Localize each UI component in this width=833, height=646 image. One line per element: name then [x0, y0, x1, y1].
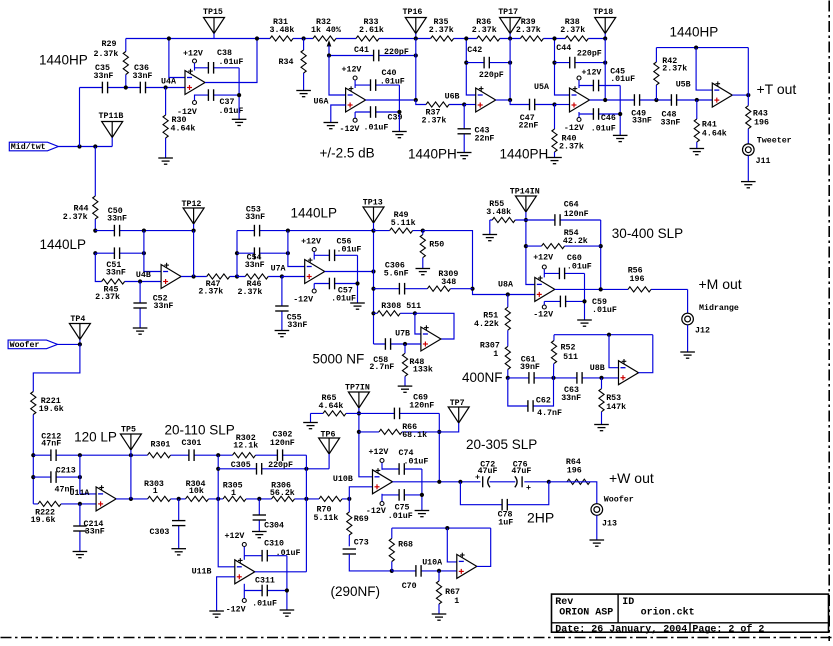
svg-text:.01uF: .01uF [364, 124, 389, 133]
svg-text:10k: 10k [189, 486, 204, 496]
junction R303/C303 [177, 497, 181, 501]
wire to U4B inverting [144, 231, 161, 272]
power -12V U6A [353, 118, 357, 122]
junction R308/U7B [413, 311, 417, 315]
wire to C35 [79, 88, 81, 147]
junction C50 left [93, 229, 97, 233]
junction C42 right [508, 61, 512, 65]
wire to U8A + [423, 231, 535, 295]
ground C43 [457, 152, 472, 154]
resistor R53 [598, 389, 605, 412]
wire TP13 stem [373, 223, 375, 231]
svg-text:+T out: +T out [757, 81, 797, 97]
svg-text:ORION ASP: ORION ASP [559, 608, 613, 619]
capacitor C48 [671, 94, 677, 106]
wire C46 row [579, 113, 620, 115]
wire C47 row [510, 100, 554, 105]
op-amp U8B [619, 361, 639, 385]
svg-text:TP12: TP12 [182, 200, 202, 209]
junction C212 right [78, 453, 82, 457]
svg-text:-12V: -12V [564, 124, 584, 133]
wire V+ stub U4A [194, 63, 196, 70]
svg-text:1: 1 [231, 489, 236, 498]
wire C40 row [355, 84, 399, 86]
svg-text:C305: C305 [231, 461, 251, 470]
svg-text:2.37k: 2.37k [198, 287, 223, 297]
svg-text:U7A: U7A [271, 265, 286, 274]
op-amp U7A [305, 260, 325, 284]
svg-text:39nF: 39nF [520, 363, 540, 372]
svg-text:4.64k: 4.64k [702, 129, 727, 139]
ground R50 [416, 268, 431, 270]
resistor R32 [313, 35, 336, 42]
junction C59/C60 [582, 299, 586, 303]
junction C49/R42 [654, 98, 658, 102]
op-amp U6A [346, 88, 366, 112]
junction R308 row [371, 311, 375, 315]
junction TP5/feedback [129, 453, 133, 457]
junction U6B out [508, 98, 512, 102]
capacitor C306 [399, 283, 405, 295]
svg-text:4.7nF: 4.7nF [537, 409, 562, 418]
junction loop/U8B- [607, 333, 611, 337]
test point TP15 [204, 18, 225, 34]
wire R54 row [526, 245, 601, 247]
ground J12 [680, 351, 695, 353]
junction C61/C63/R52/C62 [551, 376, 555, 380]
svg-text:TP7IN: TP7IN [345, 384, 370, 393]
svg-text:2.61k: 2.61k [359, 25, 384, 35]
wire TP18 vertical [604, 39, 606, 101]
wire C74 row [382, 468, 422, 470]
junction R31/R32/R34 [302, 36, 306, 40]
wire C302 node vertical to U11B- [218, 455, 235, 567]
svg-text:orion.ckt: orion.ckt [641, 607, 695, 619]
svg-text:22nF: 22nF [475, 135, 495, 144]
resistor R39 [520, 35, 543, 42]
wire C57 row [314, 283, 357, 285]
junction 400NF input [506, 376, 510, 380]
svg-text:-12V: -12V [533, 311, 553, 320]
wire C44 left vertical [555, 39, 570, 96]
junction R29/C35/C36 [124, 85, 128, 89]
junction R54 left [524, 244, 528, 248]
wire R67 branch [438, 571, 440, 614]
svg-text:R53: R53 [606, 394, 621, 403]
resistor R33 [356, 35, 379, 42]
svg-text:4.64k: 4.64k [171, 124, 196, 134]
svg-text:220pF: 220pF [268, 461, 293, 470]
ground R30 [158, 157, 173, 159]
junction rail [552, 36, 556, 40]
junction C305 right [304, 467, 308, 471]
wire C59 row [544, 300, 584, 302]
wire 400NF row [508, 377, 619, 379]
junction feedback [437, 480, 441, 484]
wire V- stub U5A [578, 112, 580, 117]
svg-text:Mid/twt: Mid/twt [11, 142, 46, 152]
wire R66 row [359, 431, 439, 433]
svg-text:33nF: 33nF [106, 268, 126, 277]
svg-text:C311: C311 [255, 577, 275, 586]
capacitor C69 [394, 407, 400, 419]
junction wiper/C41 [327, 53, 331, 57]
svg-text:220pF: 220pF [384, 48, 409, 57]
capacitor C75 [399, 489, 405, 501]
capacitor C35 [102, 81, 108, 93]
wire C51 row [95, 252, 144, 254]
wire R69 branch [348, 499, 350, 546]
wire R52 branch [553, 335, 556, 378]
svg-text:J12: J12 [695, 327, 710, 336]
svg-text:+12V: +12V [369, 448, 389, 457]
test point TP17 [500, 18, 521, 34]
wire R221 input chain [33, 344, 80, 504]
wire U8A output row [555, 288, 688, 290]
wire U11B + to ground [217, 577, 235, 611]
junction R68/C70 [390, 569, 394, 573]
svg-text:196: 196 [630, 275, 645, 284]
svg-text:.01uF: .01uF [380, 78, 405, 87]
ground U6A + [324, 122, 339, 124]
svg-text:2.37k: 2.37k [662, 64, 687, 74]
resistor R307 [504, 346, 511, 369]
junction C47/R40/U5A+ [552, 102, 556, 106]
wire TP16 vertical [415, 39, 417, 101]
resistor R64 [567, 478, 590, 485]
wire R34 branch [303, 39, 305, 91]
svg-text:TP16: TP16 [403, 8, 423, 17]
wire J12 to ground [687, 325, 689, 352]
junction C301/R302 [216, 453, 220, 457]
wire C73 to C70 row [349, 554, 392, 571]
svg-text:+: + [526, 484, 531, 493]
junction rail/U4A- [167, 36, 171, 40]
svg-text:+12V: +12V [183, 50, 203, 59]
junction U6A out [414, 98, 418, 102]
junction TP12 [192, 229, 196, 233]
capacitor C62 [528, 400, 534, 412]
svg-text:5000 NF: 5000 NF [313, 352, 365, 367]
ground R67 [432, 613, 447, 615]
svg-text:U4A: U4A [161, 78, 176, 87]
junction C76/C78/R64 [547, 480, 551, 484]
junction rail/TP18 [603, 36, 607, 40]
wire R37 row [416, 100, 464, 105]
svg-text:C301: C301 [182, 439, 202, 448]
test point TP18 [595, 18, 616, 34]
wire C58 row [374, 343, 421, 345]
svg-text:1440LP: 1440LP [40, 237, 87, 252]
wire C42 row [466, 62, 510, 64]
wire R222 row [33, 503, 96, 505]
wire R45 row [95, 253, 161, 281]
svg-text:U6A: U6A [314, 98, 329, 107]
resistor R54 [542, 243, 565, 250]
wire TP13 vertical [373, 231, 375, 272]
svg-text:+12V: +12V [301, 238, 321, 247]
wire TP17 vertical [509, 39, 511, 101]
capacitor C57 [329, 277, 335, 289]
ground R65 [303, 422, 318, 424]
wire U10A output loop [477, 528, 491, 566]
svg-text:R67: R67 [445, 588, 460, 597]
wire feedback vertical [130, 455, 132, 499]
capacitor C303 [172, 520, 186, 526]
svg-text:-12V: -12V [293, 296, 313, 305]
wire C35/C36 row [80, 87, 186, 89]
svg-text:U8A: U8A [498, 281, 513, 290]
junction feedback [129, 497, 133, 501]
ground J13 [590, 539, 605, 541]
svg-text:+M out: +M out [699, 276, 742, 292]
svg-text:5.11k: 5.11k [314, 513, 339, 523]
junction [77, 144, 81, 148]
wire C64 right vertical [600, 220, 602, 289]
svg-text:.01uF: .01uF [388, 512, 413, 521]
svg-text:20-110 SLP: 20-110 SLP [165, 423, 235, 438]
wire to U11A inverting [80, 455, 96, 494]
wire R50 branch [422, 231, 424, 269]
wire V+ stub U5A [578, 80, 580, 88]
svg-text:Tweeter: Tweeter [757, 137, 792, 146]
power -12V U5A [577, 118, 581, 122]
svg-text:56.2k: 56.2k [270, 488, 295, 498]
junction R306/R70/U11B out [304, 497, 308, 501]
capacitor C54 [254, 247, 260, 259]
wire wiper [328, 46, 330, 56]
resistor R301 [148, 452, 171, 459]
junction C51 right [142, 251, 146, 255]
svg-text:348: 348 [441, 278, 456, 287]
wire bypass to ground [238, 68, 240, 120]
wire C311 row [244, 590, 287, 592]
title block divider date/page [689, 623, 691, 632]
capacitor C50 [114, 224, 120, 236]
wire U7A output [325, 271, 374, 273]
junction C56/C57 [355, 281, 359, 285]
junction C70/R67 [437, 569, 441, 573]
wire TP11B stem [111, 138, 113, 147]
svg-text:R43: R43 [753, 110, 768, 119]
svg-text:TP7: TP7 [450, 399, 465, 408]
svg-text:-12V: -12V [177, 108, 197, 117]
svg-text:3.48k: 3.48k [486, 207, 511, 217]
resistor R69 [346, 512, 353, 535]
svg-text:2.37k: 2.37k [63, 212, 88, 222]
wire V+ stub U6A [354, 80, 356, 88]
junction C37/C38 [237, 93, 241, 97]
svg-text:TP6: TP6 [321, 431, 336, 440]
test point TP16 [405, 18, 426, 34]
junction R45/C52 [138, 279, 142, 283]
capacitor C36 [140, 81, 146, 93]
power -12V U4A [193, 101, 197, 105]
svg-text:33nF: 33nF [154, 302, 174, 311]
junction rail/TP16 [414, 36, 418, 40]
resistor R66 [379, 429, 402, 436]
wire U11A output row [116, 498, 349, 500]
resistor R68 [388, 539, 395, 562]
junction U5A out/TP18 [603, 98, 607, 102]
capacitor C302 [277, 449, 283, 461]
junction R222/C214 [78, 502, 82, 506]
resistor R43 [745, 106, 752, 129]
input tag Woofer [8, 340, 57, 349]
wire TP4 stem [79, 340, 81, 345]
svg-text:C46: C46 [601, 114, 616, 123]
svg-text:33nF: 33nF [245, 261, 265, 270]
resistor R42 [653, 62, 660, 85]
junction C74/C75 [420, 493, 424, 497]
svg-text:U11B: U11B [192, 568, 212, 577]
svg-text:.01uF: .01uF [404, 458, 429, 467]
capacitor C52 [133, 303, 147, 309]
op-amp U5A [570, 88, 590, 112]
svg-text:Rev: Rev [555, 597, 573, 608]
wire V- stub U4A [194, 95, 196, 101]
svg-text:4.22k: 4.22k [474, 319, 499, 329]
wire V- stub U7A [313, 284, 315, 289]
junction C212 left [31, 453, 35, 457]
wire C53/C54 left vertical [236, 231, 238, 277]
ground U11B bypass [280, 609, 295, 611]
junction U8A out [599, 287, 603, 291]
power +12V U4A [193, 59, 197, 63]
wire V+ stub U11B [243, 547, 245, 560]
svg-text:1k 40%: 1k 40% [311, 25, 341, 35]
capacitor C53 [254, 224, 260, 236]
resistor R306 [272, 496, 295, 503]
svg-text:1440LP: 1440LP [291, 206, 338, 221]
svg-text:120nF: 120nF [564, 210, 589, 219]
wire TP14IN vertical to U8A- [526, 212, 535, 285]
capacitor C51 [114, 247, 120, 259]
wire TP7 stem [439, 423, 458, 432]
junction R46/C55 [280, 274, 284, 278]
ground C55 [275, 330, 290, 332]
capacitor C49 [634, 94, 640, 106]
svg-text:C60: C60 [567, 254, 582, 263]
svg-text:.01uF: .01uF [219, 107, 244, 116]
junction R37/C43/U6B+ [462, 102, 466, 106]
wire C305 row [218, 468, 329, 470]
wire C60 row [544, 272, 584, 274]
svg-text:2.37k: 2.37k [94, 49, 119, 59]
power +12V U10B [380, 459, 384, 463]
wire R65 row [311, 412, 359, 414]
capacitor C304 [252, 515, 266, 521]
capacitor C78 [502, 499, 508, 511]
resistor R303 [148, 496, 171, 503]
ground R48 [398, 385, 413, 387]
junction rail/TP17 [508, 36, 512, 40]
resistor R50 [419, 235, 426, 258]
wire TP5 stem [130, 450, 132, 455]
svg-text:33nF: 33nF [287, 321, 307, 330]
wire R51/R307 chain [507, 295, 509, 378]
svg-text:2.37k: 2.37k [516, 25, 541, 35]
svg-text:J11: J11 [756, 157, 771, 166]
resistor R40 [551, 129, 558, 152]
svg-text:-12V: -12V [226, 606, 246, 615]
svg-text:C213: C213 [56, 467, 76, 476]
junction C58/R48 [403, 342, 407, 346]
junction U7A out/TP13 [371, 269, 375, 273]
page border right [828, 1, 830, 642]
svg-text:TP15: TP15 [203, 8, 223, 17]
wire C213 row [33, 476, 80, 478]
test point TP4 [69, 324, 90, 340]
wire U4A inverting input [169, 39, 185, 78]
svg-text:.01uF: .01uF [592, 306, 617, 315]
wire C38 row [195, 67, 240, 69]
resistor R47 [207, 273, 230, 280]
svg-text:+12V: +12V [342, 66, 362, 75]
resistor R308 [377, 310, 400, 317]
ground U4A bypass [232, 118, 247, 120]
junction R304/R305 [216, 497, 220, 501]
resistor R34 [300, 50, 307, 73]
svg-text:220pF: 220pF [577, 49, 602, 58]
wire U8B inverting [609, 335, 619, 368]
wire to U7A + [282, 276, 305, 278]
svg-text:12.1k: 12.1k [233, 441, 258, 451]
wire R30 branch [165, 88, 167, 159]
wire R41 branch [696, 100, 698, 149]
junction R49/R50 [421, 229, 425, 233]
page border bottom [1, 637, 833, 639]
svg-text:1: 1 [454, 597, 459, 606]
wire U7B inverting [415, 313, 421, 334]
wire U6A + to ground [331, 105, 346, 123]
svg-text:2.37k: 2.37k [422, 116, 447, 126]
svg-text:R69: R69 [354, 515, 369, 524]
resistor R30 [162, 115, 169, 138]
svg-text:-12V: -12V [340, 125, 360, 134]
wire main rail [126, 38, 605, 40]
power +12V U6A [353, 76, 357, 80]
junction U5B out [746, 93, 750, 97]
wire R49 row [374, 230, 423, 232]
junction C42 left [464, 61, 468, 65]
svg-text:+W out: +W out [609, 470, 654, 486]
resistor R222 [38, 501, 61, 508]
wire R29 branch [125, 39, 127, 88]
resistor R305 [223, 496, 246, 503]
capacitor C311 [262, 584, 268, 596]
svg-text:1uF: 1uF [498, 519, 513, 528]
svg-text:33nF: 33nF [632, 117, 652, 126]
svg-text:C38: C38 [217, 49, 232, 58]
svg-text:33nF: 33nF [245, 213, 265, 222]
wire C306/R309 row [374, 288, 473, 290]
svg-text:2HP: 2HP [527, 510, 554, 526]
ground R55 [483, 234, 498, 236]
wire C214 branch [79, 504, 81, 552]
capacitor C38 [208, 62, 214, 74]
svg-text:220pF: 220pF [479, 71, 504, 80]
svg-text:1440HP: 1440HP [39, 53, 88, 68]
svg-text:U10B: U10B [333, 475, 353, 484]
wire C54 row [237, 252, 288, 254]
op-amp U8A [535, 277, 555, 301]
title block frame [552, 594, 829, 632]
op-amp U10B [373, 470, 393, 494]
wire U4B output / R47 row [181, 276, 237, 278]
resistor R45 [102, 278, 125, 285]
capacitor C56 [329, 249, 335, 261]
